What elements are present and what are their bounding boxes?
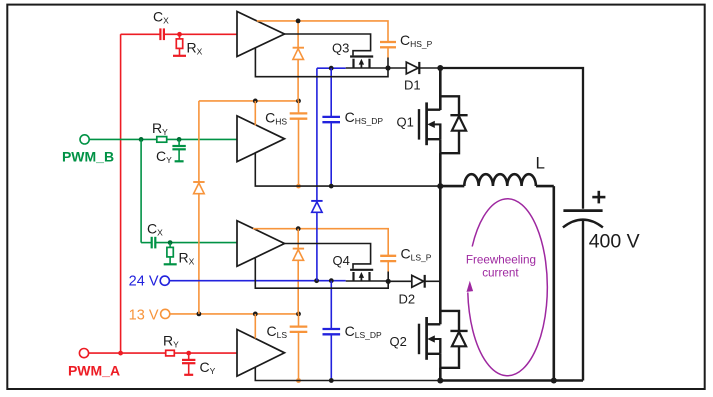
- wire buffer C output to Q4 gate: [285, 244, 371, 269]
- wire buffer A supply rail: [257, 21, 388, 41]
- op-amp buffer D: [237, 330, 285, 377]
- node CHS_DP top tap: [329, 66, 334, 71]
- node top rail junction: [437, 65, 443, 71]
- wire CX1 to buffer A input: [164, 33, 237, 35]
- node CY1 junction: [177, 137, 182, 142]
- wire orange mid riser C below diode: [297, 260, 299, 314]
- node buffer B supply tap: [253, 99, 258, 104]
- wire top row to CX1: [121, 33, 161, 35]
- transistor Q3: [332, 41, 373, 69]
- op-amp buffer C: [237, 221, 285, 267]
- svg-text:Q1: Q1: [397, 115, 414, 130]
- diode D1: [388, 62, 438, 93]
- wire orange mid riser above diode: [297, 21, 299, 48]
- node inductor return: [551, 378, 557, 384]
- svg-text:D1: D1: [404, 78, 421, 93]
- node 24V riser tap: [314, 278, 319, 283]
- svg-text:Freewheeling: Freewheeling: [466, 254, 536, 267]
- wire Q4 source rail: [346, 280, 389, 282]
- diode D2: [388, 275, 439, 307]
- wire switch node to Q2 drain: [439, 186, 442, 324]
- node 13V-riser junction: [197, 312, 202, 317]
- wire buffer D supply drop: [254, 314, 256, 339]
- wire Q1 source to switch node: [439, 153, 442, 186]
- wire PWM_A terminal to junction: [89, 352, 121, 354]
- node CLS_DP bottom: [329, 378, 334, 383]
- diode Q1 body: [440, 96, 467, 153]
- wire buffer D return to bottom rail: [255, 367, 439, 381]
- op-amp buffer A: [237, 12, 285, 57]
- wire CHS_P to clamp node: [387, 58, 389, 69]
- diode blue D_B1: [311, 201, 322, 212]
- diode orange D_OR2: [293, 48, 304, 60]
- node buffer C rail tap: [296, 226, 301, 231]
- node CLS tap: [296, 312, 301, 317]
- terminal 13V: [129, 307, 170, 323]
- capacitor CLS_DP: [323, 281, 382, 381]
- capacitor 400V bus: [563, 191, 640, 381]
- resistor RX1: [173, 34, 203, 56]
- wire blue riser above diode: [316, 68, 318, 201]
- node buffer D supply tap: [253, 312, 258, 317]
- capacitor CLS: [266, 314, 307, 381]
- wire 13V rail: [170, 313, 299, 315]
- resistor RX2: [164, 243, 195, 267]
- node PWM_A junction: [118, 351, 123, 356]
- wire Q3 source rail: [346, 67, 388, 69]
- wire Q1 drain drop: [439, 68, 442, 110]
- wire top rail: [440, 68, 583, 209]
- terminal PWM_A: [68, 349, 120, 379]
- svg-text:13 V: 13 V: [129, 307, 159, 323]
- capacitor CHS: [265, 101, 307, 186]
- node CLS_DP tap: [329, 278, 334, 283]
- wire buffer C return: [255, 258, 388, 288]
- svg-text:current: current: [482, 267, 519, 280]
- svg-text:PWM_B: PWM_B: [62, 149, 114, 165]
- diode orange D_OR1: [193, 182, 204, 194]
- wire CX2 to buffer C input: [155, 242, 237, 244]
- wire blue top link: [317, 67, 346, 69]
- wire bottom rail: [440, 379, 583, 381]
- capacitor CHS_DP: [322, 68, 383, 186]
- node clamp low junction: [386, 279, 391, 284]
- diode Q2 body: [440, 311, 467, 368]
- wire orange riser lower: [198, 194, 200, 314]
- wire buffer A return: [255, 48, 388, 77]
- svg-text:PWM_A: PWM_A: [68, 363, 120, 379]
- node PWM_B junction: [139, 137, 144, 142]
- freewheeling current loop: [466, 199, 548, 376]
- wire PWM_B terminal to junction: [89, 138, 157, 140]
- wire 24V rail: [169, 280, 345, 282]
- op-amp buffer B: [237, 116, 285, 162]
- node RX1 junction: [177, 32, 182, 37]
- node buffer A rail tap: [296, 19, 301, 24]
- svg-text:D2: D2: [399, 292, 416, 307]
- wire inductor to bottom rail: [552, 186, 555, 380]
- capacitor CX1: [153, 9, 169, 41]
- wire buffer A output to Q3 gate: [285, 34, 371, 55]
- node CHS bottom: [296, 184, 301, 189]
- node clamp high junction: [385, 65, 390, 70]
- wire RY2 to buffer D input: [174, 352, 237, 354]
- resistor RY2: [163, 333, 179, 356]
- wire orange mid riser C above diode: [297, 229, 299, 249]
- wire CLS_P to clamp node: [387, 272, 389, 282]
- terminal 24V: [129, 273, 170, 289]
- node RX2 junction: [168, 240, 173, 245]
- node CLS bottom: [296, 378, 301, 383]
- wire blue riser below diode: [316, 212, 318, 280]
- wire buffer B supply rail: [199, 100, 299, 102]
- capacitor CHS_P: [380, 32, 433, 58]
- capacitor CX2: [147, 221, 163, 249]
- diode orange D_OR3: [293, 249, 304, 261]
- capacitor CLS_P: [380, 246, 432, 272]
- svg-text:400 V: 400 V: [589, 231, 640, 253]
- svg-text:Q3: Q3: [332, 41, 349, 56]
- wire RY1 to buffer B input: [167, 138, 237, 140]
- node CHS_DP bottom: [329, 184, 334, 189]
- transistor Q1: [397, 102, 442, 154]
- wire buffer C supply rail: [253, 229, 388, 255]
- capacitor CY2: [182, 353, 216, 376]
- terminal PWM_B: [62, 135, 114, 165]
- resistor RY1: [152, 120, 168, 142]
- svg-text:24 V: 24 V: [129, 273, 159, 289]
- wire junction to RY2: [121, 352, 166, 354]
- node switch node: [437, 183, 443, 189]
- wire Q2 source to bottom rail: [439, 368, 442, 381]
- transistor Q2: [390, 317, 442, 369]
- inductor L: [440, 154, 554, 187]
- node CHS tap: [296, 99, 301, 104]
- svg-text:Q2: Q2: [390, 334, 407, 349]
- transistor Q4: [333, 253, 374, 281]
- wire orange riser upper: [198, 101, 200, 182]
- node Q2 source bottom: [437, 378, 443, 384]
- wire PWM_A vertical riser: [120, 34, 122, 353]
- wire buffer B supply drop: [254, 101, 256, 126]
- wire buffer B return to switch node: [255, 153, 438, 186]
- wire row C to CX2: [141, 242, 152, 244]
- svg-text:L: L: [536, 154, 545, 173]
- svg-text:Q4: Q4: [333, 253, 350, 268]
- node CY2 junction: [186, 351, 191, 356]
- wire orange mid riser below diode: [297, 59, 299, 101]
- wire PWM_B vertical dropper: [140, 139, 142, 242]
- capacitor CY1: [156, 139, 186, 165]
